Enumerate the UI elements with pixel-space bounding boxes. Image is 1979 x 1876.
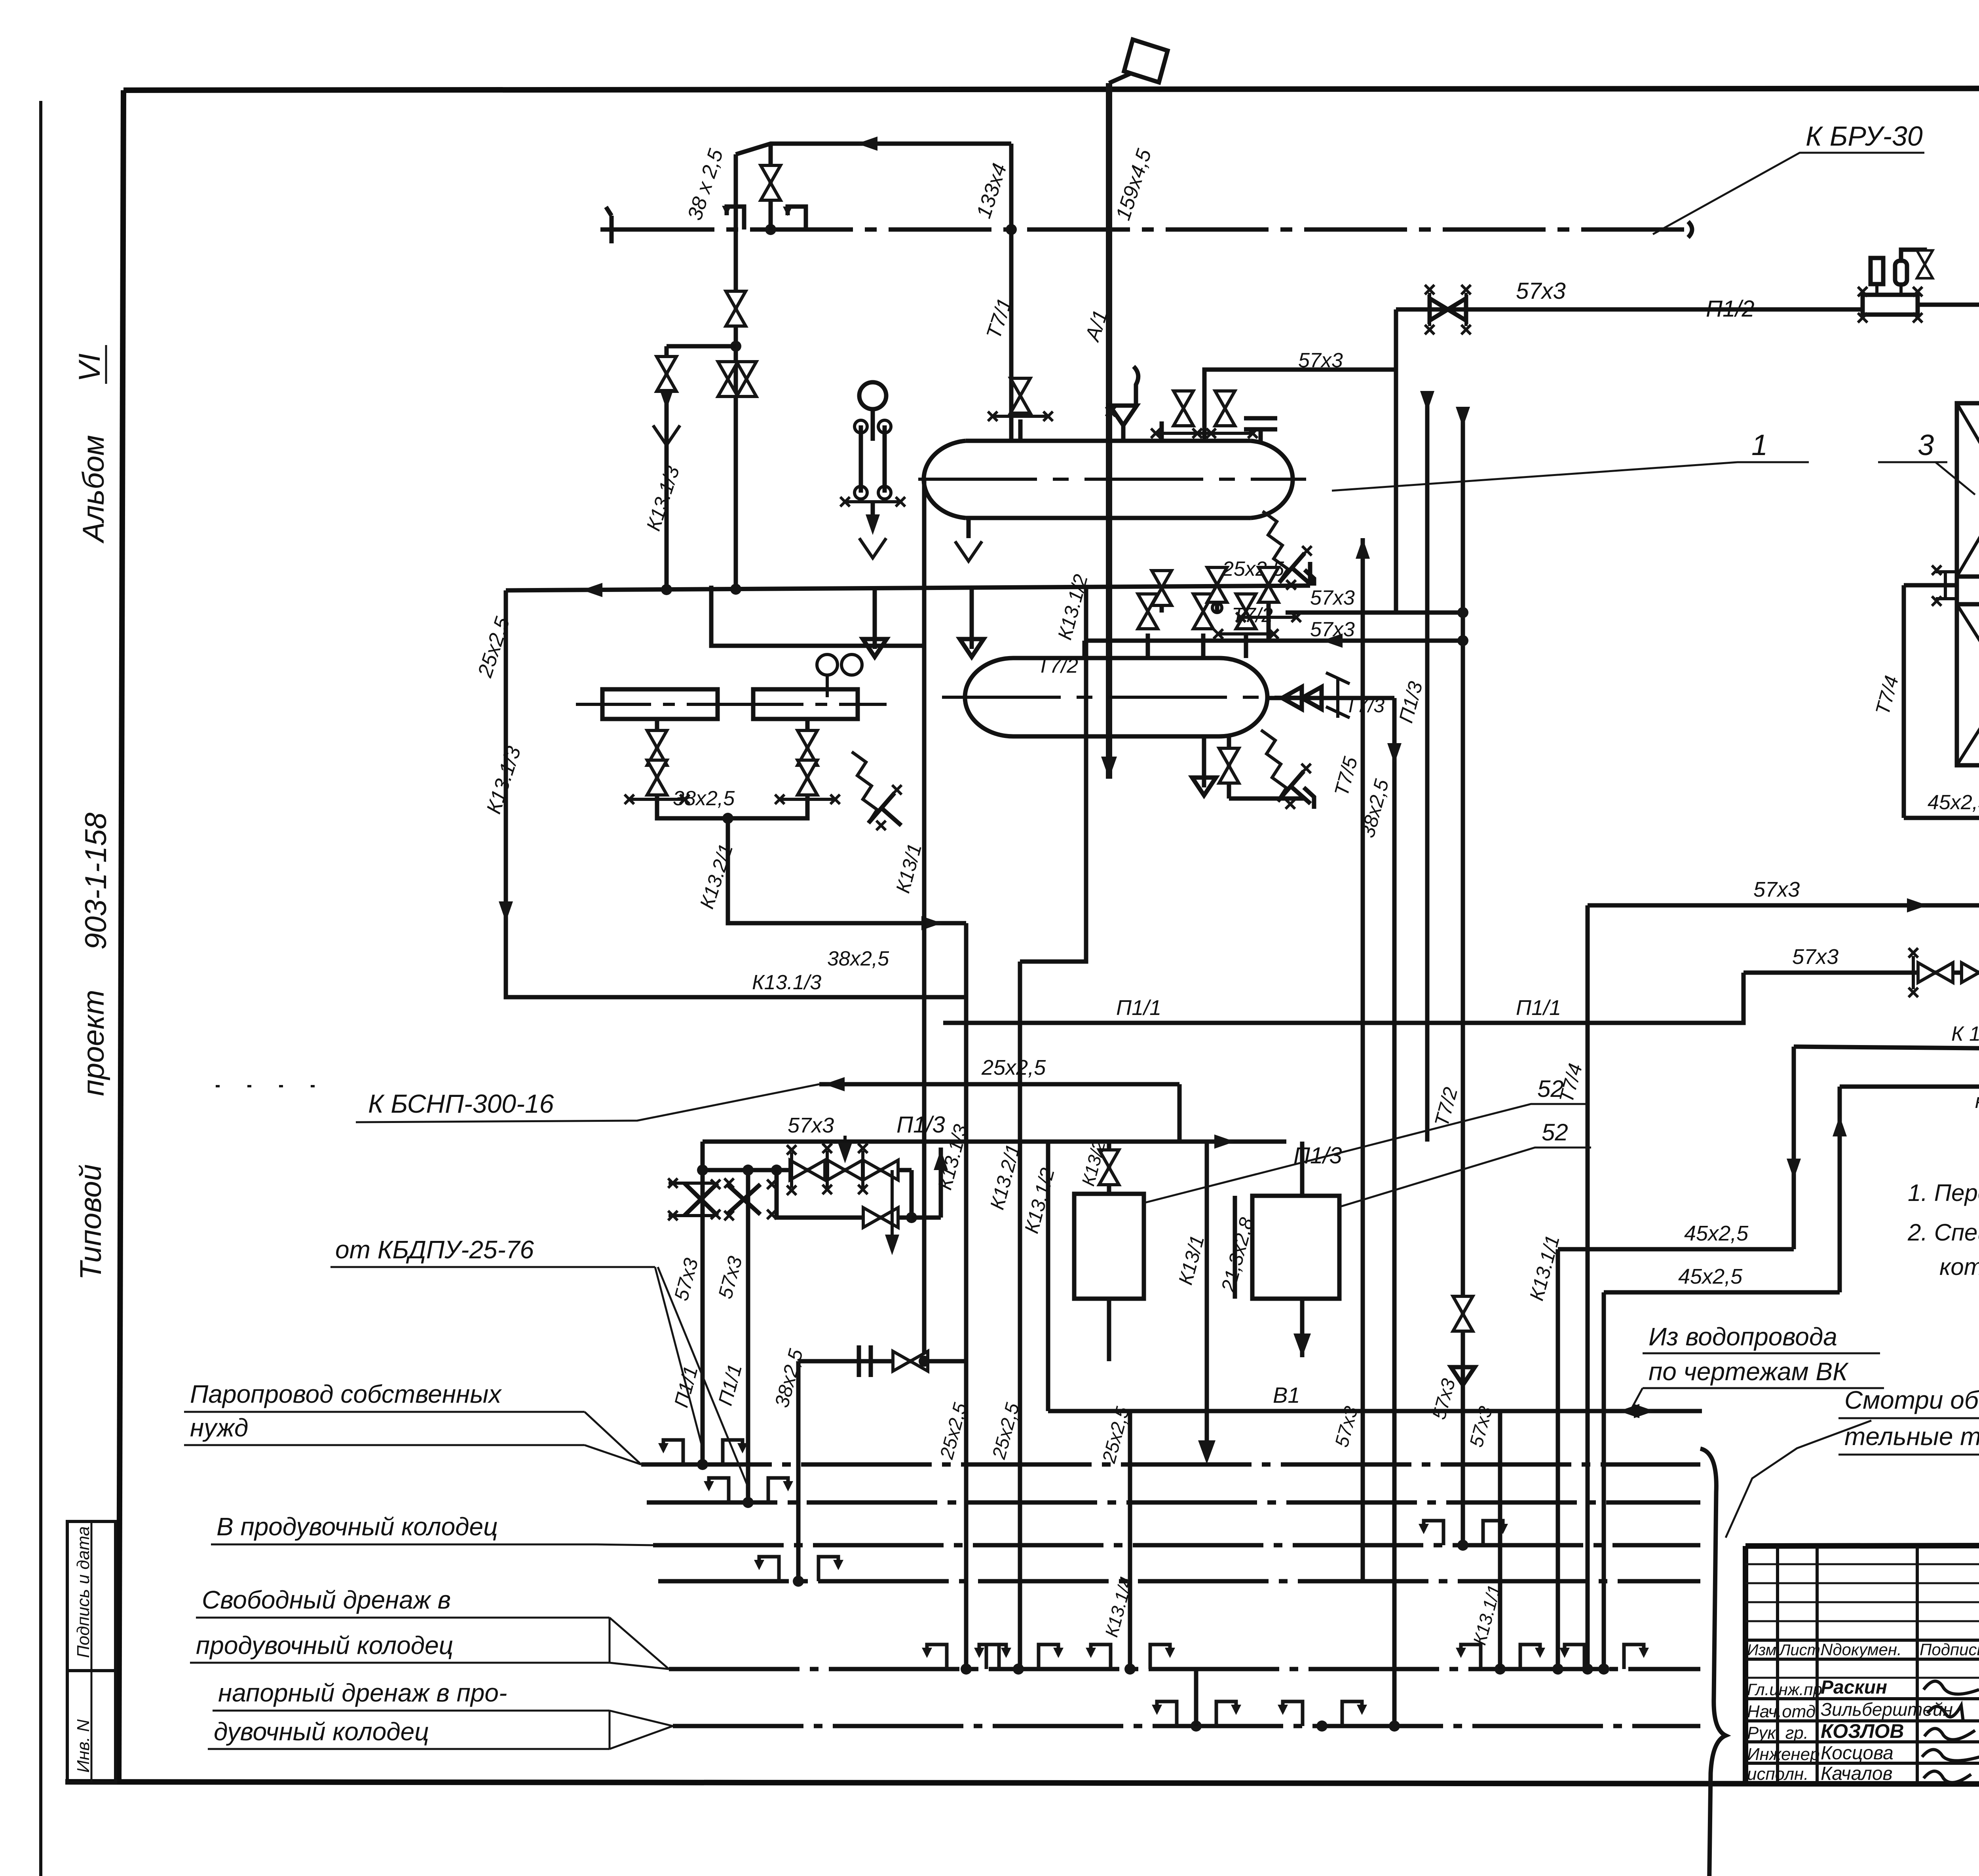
svg-text:Качалов: Качалов — [1821, 1763, 1893, 1784]
svg-text:П1/1: П1/1 — [1516, 996, 1561, 1020]
svg-text:тельные трубопроводы.: тельные трубопроводы. — [1844, 1422, 1979, 1451]
drum2 left bottom gauges — [826, 673, 829, 697]
left stub riser down — [1902, 585, 1906, 818]
drum2 bottom drains — [1227, 736, 1231, 799]
funnels hanging below collector — [873, 590, 877, 649]
52 leaders — [1144, 1104, 1587, 1203]
svg-text:Nдокумен.: Nдокумен. — [1821, 1640, 1902, 1659]
svg-text:напорный дренаж в про-: напорный дренаж в про- — [218, 1679, 507, 1707]
svg-text:Свободный дренаж в: Свободный дренаж в — [202, 1586, 451, 1614]
svg-text:К БСНП-300-16: К БСНП-300-16 — [368, 1089, 554, 1118]
reducing unit РОУ on П1/2 — [1863, 295, 1918, 315]
svg-text:Инв. N: Инв. N — [74, 1719, 93, 1773]
svg-text:45х2,5: 45х2,5 — [1928, 791, 1979, 814]
svg-text:57х3: 57х3 — [1753, 878, 1800, 901]
svg-text:продувочный колодец: продувочный колодец — [196, 1631, 453, 1660]
frame border — [123, 88, 1979, 90]
svg-text:КОЗЛОВ: КОЗЛОВ — [1821, 1720, 1904, 1742]
svg-text:VI: VI — [73, 353, 106, 382]
paper edge left — [39, 101, 42, 1876]
svg-text:57х3: 57х3 — [1298, 349, 1343, 372]
svg-text:903-1-158: 903-1-158 — [79, 813, 113, 950]
boiler drum 2 — [1013, 656, 1219, 660]
svg-text:Лист.: Лист. — [1778, 1641, 1825, 1659]
svg-text:Нач.отд.: Нач.отд. — [1747, 1702, 1820, 1721]
svg-text:57х3: 57х3 — [1310, 586, 1355, 609]
svg-text:57х3: 57х3 — [1792, 945, 1838, 969]
svg-text:1: 1 — [1751, 429, 1768, 461]
left table verticals — [1776, 1546, 1779, 1783]
svg-text:Т7/2: Т7/2 — [1037, 654, 1078, 677]
drum1 gauge assembly at left — [871, 425, 875, 441]
svg-text:57х3: 57х3 — [788, 1113, 834, 1137]
svg-text:К 13.1/1: К 13.1/1 — [1951, 1022, 1979, 1045]
drum1 bottom funnel — [967, 518, 971, 538]
main steam header (dash-dot) — [612, 228, 1688, 232]
svg-text:Подпись и дата: Подпись и дата — [74, 1526, 93, 1658]
verticals terminating on drains with dots and hooks — [697, 1459, 708, 1470]
svg-text:45х2,5: 45х2,5 — [1684, 1222, 1749, 1245]
zigzag from drum1 right dome — [1263, 511, 1288, 582]
svg-text:нужд: нужд — [190, 1413, 248, 1442]
boiler drum 1 — [966, 439, 1251, 443]
svg-text:Косцова: Косцова — [1821, 1743, 1894, 1764]
svg-text:Рук. гр.: Рук. гр. — [1747, 1723, 1808, 1743]
drum1 top fittings — [1018, 419, 1023, 441]
valves above drum2 — [1138, 594, 1158, 629]
boiler drum 1 shell — [966, 516, 1251, 520]
svg-text:В1: В1 — [1273, 1383, 1300, 1407]
valves trio above T7/2 line — [1152, 571, 1172, 605]
svg-text:дувочный колодец: дувочный колодец — [214, 1717, 429, 1746]
svg-text:Альбом: Альбом — [77, 435, 110, 544]
svg-text:38х2,5: 38х2,5 — [827, 947, 889, 970]
svg-text:К13.1/3: К13.1/3 — [752, 971, 821, 994]
M line and risers — [1904, 816, 1979, 820]
svg-text:1. Перечень линий см. лист Т: 1. Перечень линий см. лист ТМ2-19. — [1908, 1180, 1979, 1206]
svg-text:45х2,5: 45х2,5 — [1678, 1265, 1743, 1288]
svg-text:Паропровод собственных: Паропровод собственных — [190, 1380, 502, 1408]
svg-text:Изм: Изм — [1747, 1641, 1776, 1659]
zigzag below drum2 left — [852, 752, 877, 823]
zigzag from drum2 right dome down — [1261, 730, 1286, 801]
T7/2 stub into drum2 — [1083, 641, 1087, 658]
left stub — [1904, 583, 1957, 588]
curly brace gathering drains — [1693, 1449, 1726, 1876]
svg-text:52: 52 — [1537, 1076, 1564, 1102]
svg-text:по чертежам ВК: по чертежам ВК — [1649, 1357, 1849, 1386]
svg-text:П1/2: П1/2 — [1706, 296, 1755, 322]
svg-text:52: 52 — [1542, 1119, 1568, 1146]
svg-text:Гл.инж.пр: Гл.инж.пр — [1747, 1680, 1822, 1699]
svg-text:57х3: 57х3 — [1516, 278, 1566, 304]
signatures squiggles — [1924, 1681, 1979, 1694]
svg-text:57х3: 57х3 — [1310, 618, 1355, 641]
Т7/3 branch from drum2 right — [1267, 696, 1394, 700]
svg-text:Из водопровода: Из водопровода — [1649, 1322, 1837, 1351]
svg-text:К БРУ-30: К БРУ-30 — [1806, 121, 1923, 152]
svg-text:котлоагрегата см. лист ТМ2: котлоагрегата см. лист ТМ2-1. — [1939, 1254, 1979, 1280]
svg-text:от КБДПУ-25-76: от КБДПУ-25-76 — [335, 1235, 534, 1264]
svg-text:2. Спецификацию оборудования: 2. Спецификацию оборудования — [1907, 1219, 1979, 1246]
svg-text:Типовой: Типовой — [74, 1164, 108, 1280]
two big X gate valves left of cluster — [684, 1183, 718, 1216]
svg-text:38х2,5: 38х2,5 — [673, 787, 735, 810]
svg-text:П1/3: П1/3 — [896, 1112, 945, 1138]
left table row lines — [1745, 1563, 1979, 1565]
К13/1 valve line from drum1 bottom left — [922, 479, 927, 646]
svg-text:25х2,5: 25х2,5 — [981, 1056, 1046, 1079]
drop hooks on main line — [727, 207, 744, 230]
svg-text:исполн.: исполн. — [1747, 1764, 1808, 1784]
svg-text:В продувочный колодец: В продувочный колодец — [217, 1512, 498, 1541]
svg-text:Подпись: Подпись — [1920, 1640, 1979, 1659]
svg-text:к13.1/3: к13.1/3 — [1975, 1090, 1979, 1113]
svg-text:проект: проект — [77, 990, 110, 1096]
svg-text:П1/1: П1/1 — [1116, 996, 1161, 1020]
branch to К13.1/3 funnel line — [667, 344, 736, 349]
svg-text:Раскин: Раскин — [1821, 1677, 1887, 1698]
stamp column boxes — [67, 1521, 116, 1783]
svg-text:Инженер: Инженер — [1747, 1745, 1820, 1764]
svg-text:Смотри общекотельные соедини-: Смотри общекотельные соедини- — [1844, 1386, 1979, 1414]
svg-text:3: 3 — [1918, 429, 1934, 461]
long mid verticals to bottom — [964, 923, 969, 1669]
economizer block 3 — [1957, 403, 1979, 765]
leader К БРУ-30 — [1653, 153, 1924, 234]
